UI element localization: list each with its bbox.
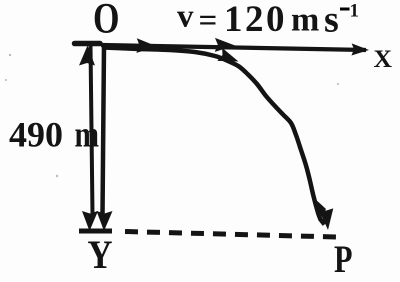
svg-text:O: O: [93, 0, 120, 43]
svg-text:120: 120: [224, 0, 287, 40]
svg-text:s: s: [324, 0, 339, 41]
svg-text:P: P: [334, 238, 353, 281]
svg-text:m: m: [291, 2, 319, 39]
svg-text:v: v: [177, 0, 194, 35]
svg-text:X: X: [374, 44, 393, 73]
svg-text:490: 490: [9, 115, 63, 155]
svg-text:1: 1: [350, 1, 360, 22]
svg-text:m: m: [75, 115, 100, 156]
svg-text:Y: Y: [88, 232, 113, 277]
svg-text:=: =: [199, 3, 218, 39]
